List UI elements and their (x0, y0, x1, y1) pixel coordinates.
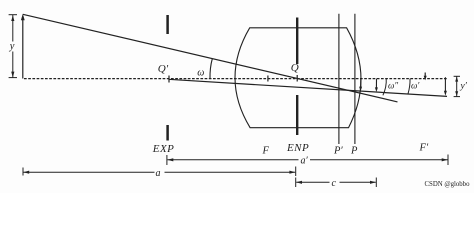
principal plane P (354, 14, 356, 144)
y' dimension (454, 75, 460, 77)
EXP stop bars (166, 15, 169, 34)
small arrow at c end (on emergent ray) (375, 79, 377, 90)
tick Q (296, 75, 298, 82)
dimension c (295, 178, 297, 188)
svg-text:ENP: ENP (286, 142, 309, 154)
svg-text:a′: a′ (301, 156, 309, 167)
svg-text:y: y (9, 41, 15, 52)
dimension a' (166, 155, 168, 165)
omega arc (210, 59, 212, 79)
svg-text:F: F (262, 146, 270, 157)
svg-text:P: P (350, 146, 358, 157)
svg-text:ω′: ω′ (411, 81, 420, 91)
svg-text:ω: ω (197, 68, 204, 79)
y dimension line (12, 15, 14, 42)
F' tick arrow on axis (424, 73, 426, 78)
optical axis (dashed) (24, 78, 447, 80)
image point arrow (444, 77, 446, 93)
tick Q' (168, 76, 170, 83)
svg-text:Q: Q (291, 62, 299, 74)
tick F (267, 76, 269, 82)
omega' arc (408, 79, 410, 94)
svg-text:F′: F′ (419, 143, 429, 154)
incident chief ray (23, 14, 398, 102)
svg-text:Q′: Q′ (158, 63, 169, 75)
ENP stop bars (296, 18, 298, 65)
svg-text:y′: y′ (460, 82, 468, 92)
emergent chief ray (169, 79, 448, 96)
svg-text:P′: P′ (333, 146, 343, 157)
svg-text:ω″: ω″ (388, 81, 398, 91)
omega'' arc (383, 78, 386, 95)
svg-text:a: a (156, 168, 161, 179)
svg-text:EXP: EXP (152, 143, 175, 155)
dimension a (22, 168, 24, 176)
svg-text:CSDN @globbo: CSDN @globbo (425, 181, 471, 188)
object arrow y (22, 18, 24, 79)
svg-text:c: c (332, 178, 337, 189)
lens outline (235, 28, 361, 128)
small arrow on emergent ray at lens exit (360, 79, 362, 89)
principal plane P' (338, 14, 340, 144)
